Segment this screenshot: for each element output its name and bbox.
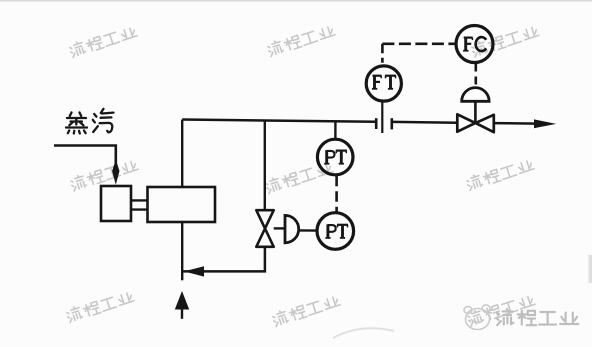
FC to valve signal line (dashed) [474, 64, 477, 88]
ejector box E1 [148, 187, 216, 222]
watermark right edge bar [589, 255, 592, 283]
watermark faint curve [333, 328, 394, 338]
orifice plate right tap [390, 118, 393, 129]
shaft coupling [131, 200, 148, 209]
watermark top edge line [0, 0, 592, 2]
pressure transmitter PT upper [317, 139, 353, 175]
control valve body V1 [457, 114, 494, 132]
wire ejector bottom to junction [181, 222, 183, 280]
flow transmitter FT [366, 66, 401, 101]
outlet flow arrow [534, 119, 556, 128]
wire valve to actuator [274, 227, 285, 229]
wire main process line (left of orifice) [182, 120, 375, 122]
bypass return wire [182, 247, 265, 272]
PT impulse line [334, 121, 336, 139]
wire main process line (right of orifice) [393, 121, 457, 124]
bypass valve actuator [285, 215, 299, 242]
watermark [65, 23, 539, 327]
feed inlet arrow [181, 302, 183, 319]
wire steam supply line [54, 146, 116, 167]
watermark text bottom right [497, 309, 579, 325]
orifice plate left tap [375, 118, 378, 129]
steam nozzle arrow [112, 160, 119, 185]
FT impulse line [381, 102, 383, 134]
pressure transmitter PT lower [317, 213, 354, 250]
watermark logo bottom right [464, 305, 490, 330]
control valve stem [474, 101, 477, 123]
pump box M1 [101, 186, 131, 221]
PT to PT signal line (dashed) [335, 176, 338, 212]
return flow arrow [184, 266, 204, 276]
flow controller FC [456, 26, 493, 63]
control valve actuator diaphragm [462, 88, 489, 102]
wire main process line (after valve) [494, 122, 537, 125]
wire actuator to PT [299, 229, 318, 232]
FT to FC signal line (dashed) [381, 44, 384, 63]
branch wire to bypass valve [264, 120, 266, 210]
label 蒸汽 (steam) [66, 109, 114, 134]
wire riser from ejector to main line [181, 120, 183, 187]
bypass valve body V2 [256, 210, 273, 247]
